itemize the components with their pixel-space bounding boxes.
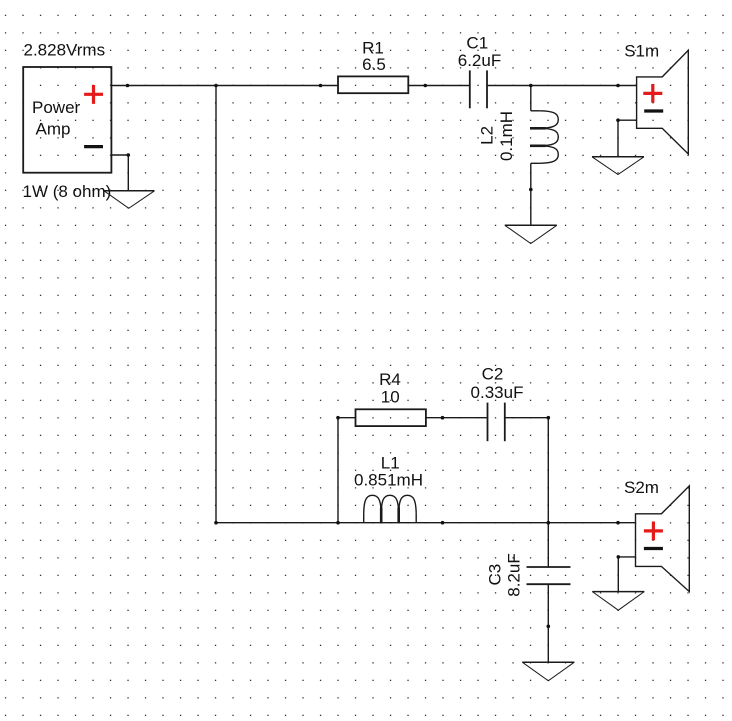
svg-text:0.851mH: 0.851mH bbox=[354, 470, 423, 489]
svg-text:8.2uF: 8.2uF bbox=[505, 553, 524, 596]
svg-text:L2: L2 bbox=[478, 126, 497, 145]
svg-text:10: 10 bbox=[381, 387, 400, 406]
svg-text:S1m: S1m bbox=[624, 41, 659, 60]
svg-text:0.33uF: 0.33uF bbox=[471, 383, 524, 402]
svg-text:6.2uF: 6.2uF bbox=[458, 51, 501, 70]
svg-text:R4: R4 bbox=[379, 370, 401, 389]
svg-text:1W (8 ohm): 1W (8 ohm) bbox=[23, 182, 112, 201]
svg-text:C3: C3 bbox=[486, 564, 505, 586]
svg-text:C1: C1 bbox=[466, 33, 488, 52]
svg-text:0.1mH: 0.1mH bbox=[497, 111, 516, 161]
svg-text:Amp: Amp bbox=[36, 119, 71, 138]
svg-text:6.5: 6.5 bbox=[362, 55, 386, 74]
svg-text:Power: Power bbox=[32, 98, 81, 117]
svg-text:S2m: S2m bbox=[624, 478, 659, 497]
svg-text:C2: C2 bbox=[482, 365, 504, 384]
svg-text:2.828Vrms: 2.828Vrms bbox=[24, 41, 106, 60]
